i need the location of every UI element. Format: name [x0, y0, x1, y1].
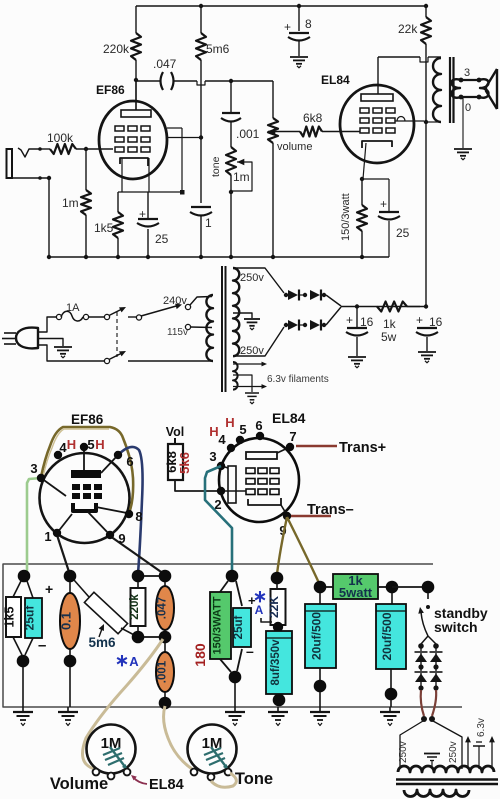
resistor 22k [425, 6, 427, 17]
ground 20uf2 [389, 707, 391, 712]
ground 0.1 [67, 707, 69, 712]
switch mains lower [104, 358, 109, 363]
transformer mains layout leads [400, 721, 423, 769]
board outline [3, 564, 462, 707]
switch selector [136, 315, 141, 320]
resistor 1k 5watt layout [333, 574, 378, 599]
svg-text:+: + [380, 197, 387, 211]
svg-text:250v: 250v [398, 741, 409, 763]
transformer PT core [221, 266, 223, 392]
svg-text:7: 7 [289, 429, 296, 444]
EF86 g2 g3 leads [167, 127, 182, 129]
transformer PT primary [206, 295, 213, 361]
wire plug earth [38, 339, 63, 347]
capacitor 8uf/350v layout [266, 631, 292, 694]
node 20uf1 bottom [314, 680, 327, 693]
svg-text:5m6: 5m6 [88, 635, 116, 650]
capacitor 25uf layout [25, 598, 42, 638]
node cathode gnd [360, 255, 364, 259]
wire HT top tap [233, 268, 284, 293]
svg-text:1: 1 [205, 216, 212, 230]
wire EF86 pin1 black [57, 535, 70, 575]
node rail-cap8 [297, 4, 301, 8]
diode DB2 [430, 671, 443, 673]
svg-text:∗: ∗ [115, 651, 129, 670]
wire top link [144, 575, 159, 577]
EL84 pin 3 [217, 462, 225, 470]
svg-text:EF86: EF86 [71, 412, 104, 427]
potentiometer volume [272, 81, 274, 118]
svg-text:EF86: EF86 [96, 83, 125, 97]
transformer OT primary [433, 58, 441, 122]
wire tan tone wiper loop [211, 773, 236, 787]
EL84 socket internals [246, 452, 277, 459]
EL84 cathode [362, 141, 392, 148]
svg-text:.001: .001 [236, 127, 260, 141]
svg-text:220k: 220k [103, 42, 130, 56]
resistor 220k [135, 6, 137, 33]
resistor 100k [50, 144, 76, 154]
speaker [486, 69, 497, 109]
wire B+ line [341, 306, 426, 308]
capacitor .047 coupling [161, 72, 164, 90]
svg-text:+: + [284, 20, 291, 34]
transformer PT HT secondary [233, 268, 239, 356]
EL84 pin 2 [217, 487, 225, 495]
Volume lugs [93, 769, 100, 776]
svg-text:A: A [129, 654, 139, 669]
diode D1 [288, 290, 298, 300]
tap 115v [185, 324, 190, 329]
svg-text:25: 25 [396, 226, 410, 240]
wire HT centre tap [233, 313, 252, 318]
svg-text:115v: 115v [167, 327, 188, 338]
arrow EL84 to volume [133, 777, 147, 784]
svg-text:+: + [45, 581, 53, 597]
svg-text:volume: volume [277, 141, 312, 153]
ground filament [245, 392, 259, 394]
wire EF86 heater loop olive [41, 427, 133, 513]
diode DA2 [415, 671, 428, 673]
svg-text:25uf: 25uf [23, 605, 37, 631]
ground 8uf [277, 707, 279, 712]
node 8uf bottom [273, 694, 286, 707]
diode DB1 [430, 651, 443, 653]
wire HT top rail [136, 5, 426, 7]
resistor 1k5 layout [18, 570, 31, 583]
resistor 220k layout [132, 570, 145, 583]
ground HT centre [244, 318, 260, 320]
svg-text:tone: tone [210, 156, 222, 177]
EF86 pin 4 [54, 451, 62, 459]
capacitor 25uf EL84 layout [233, 608, 251, 647]
wire EL84 pin9 olive b [287, 517, 319, 583]
node g2-junction [199, 135, 203, 139]
wire tan 001 to tone [164, 706, 192, 769]
svg-text:8: 8 [305, 17, 312, 31]
diode D2 [310, 290, 320, 300]
EF86 pin 8 [125, 510, 133, 518]
resistor 1m grid leak [85, 149, 87, 190]
tube EL84 envelope [340, 85, 414, 163]
svg-text:5k6: 5k6 [177, 452, 192, 474]
node 1k5 bottom [17, 655, 30, 668]
wire to standby [392, 586, 428, 588]
svg-text:180: 180 [192, 643, 208, 667]
EL84 pin 7 [286, 443, 294, 451]
node .001 bottom [159, 697, 172, 710]
tube socket EL84 layout [219, 438, 299, 522]
wire coupling line [135, 80, 137, 110]
EL84 pin 4 [227, 444, 235, 452]
svg-text:.047: .047 [153, 57, 177, 71]
svg-text:240v: 240v [163, 295, 187, 307]
wire filament bottom [233, 386, 262, 388]
node 20uf2 bottom [385, 688, 398, 701]
wire EF86 pin9 black [110, 536, 164, 574]
svg-text:20uf/500: 20uf/500 [310, 612, 324, 660]
svg-text:9: 9 [118, 531, 125, 546]
ground OT secondary [454, 148, 472, 150]
resistor 1k 5w [377, 302, 407, 312]
svg-text:3: 3 [464, 67, 470, 79]
node tone bottom [229, 190, 233, 194]
svg-text:Trans+: Trans+ [339, 440, 386, 456]
svg-text:5watt: 5watt [339, 585, 373, 600]
wire Trans- line [291, 515, 331, 517]
EF86 socket internals [83, 449, 85, 470]
transformer mains layout winding [398, 766, 494, 772]
ground mains earth [54, 346, 72, 348]
potentiometer Tone 1M [188, 725, 237, 774]
node rail-22k [424, 4, 428, 8]
svg-text:250v: 250v [240, 272, 264, 284]
EF86 grids [115, 126, 124, 131]
capacitor 25uF EL84 bypass [362, 178, 389, 180]
node 22K bottom [273, 622, 283, 632]
svg-text:250v: 250v [240, 345, 264, 357]
EF86 plate [121, 110, 151, 117]
node 0.1 bottom [64, 655, 77, 668]
wire EL84 plate to OT [378, 56, 420, 58]
svg-text:1k5: 1k5 [3, 607, 17, 628]
svg-text:6: 6 [255, 418, 262, 433]
node .047 bottom [159, 631, 172, 644]
resistor 150/3watt [361, 179, 363, 205]
resistor 1k5 cathode [113, 212, 123, 238]
wire EF86 cathode rail [118, 191, 182, 193]
wire diode join lower [326, 307, 341, 325]
svg-text:3: 3 [209, 449, 216, 464]
svg-text:22k: 22k [398, 22, 418, 36]
resistor 5m6 layout [74, 580, 89, 597]
svg-text:+: + [416, 313, 423, 327]
capacitor 16uF first [356, 306, 358, 327]
potentiometer tone 1m [226, 147, 236, 175]
ground 16uF first [348, 356, 366, 358]
transformer PT filament winding [233, 362, 238, 390]
EL84 pin 9 [283, 512, 291, 520]
capacitor 20uf/500 first [314, 581, 327, 594]
svg-text:H: H [225, 415, 234, 430]
node rail-5m6 [199, 4, 203, 8]
svg-text:1k: 1k [383, 317, 397, 331]
svg-text:H: H [95, 437, 104, 452]
svg-text:1A: 1A [66, 302, 80, 314]
diode DA1 [415, 651, 428, 653]
svg-text:5: 5 [87, 437, 94, 452]
wire 6k8 to pin2 [175, 480, 218, 491]
node tone tap [229, 79, 233, 83]
Tone wiper [204, 748, 221, 755]
wire EL84 pin3 teal [205, 466, 232, 572]
svg-text:Volume: Volume [50, 775, 108, 793]
node grid EF86 [84, 147, 88, 151]
resistor 5m6 [200, 6, 202, 33]
wire EF86 pin6 navy [118, 447, 143, 574]
resistor 6k8 grid stopper [300, 127, 322, 137]
ground 20uf1 [319, 707, 321, 712]
wire diode tails red [421, 690, 424, 716]
svg-text:3: 3 [30, 461, 37, 476]
EF86 cathode [120, 158, 148, 166]
node 1k5watt right [386, 581, 399, 594]
capacitor 1 screen [191, 206, 211, 208]
svg-text:switch: switch [434, 619, 478, 635]
wire EL84 pin9 olive a [277, 517, 287, 574]
fuse 1A [56, 314, 61, 319]
EL84 plate [361, 94, 393, 101]
capacitor .001 tone [230, 81, 232, 113]
wire screen feed vertical [425, 44, 427, 306]
svg-text:150/3WATT: 150/3WATT [212, 596, 224, 654]
svg-text:220k: 220k [129, 594, 141, 620]
svg-text:A: A [255, 603, 264, 617]
svg-text:1m: 1m [233, 170, 250, 184]
ground 16uF second [418, 351, 436, 353]
svg-text:1: 1 [44, 529, 51, 544]
EL84 pin 6 [256, 432, 264, 440]
EF86 pin 5 [80, 443, 88, 451]
svg-text:.047: .047 [157, 597, 169, 619]
diode D3 [288, 320, 298, 330]
svg-text:6: 6 [126, 454, 133, 469]
resistor 150/3WATT layout [226, 570, 239, 583]
tube socket EF86 layout [40, 453, 130, 543]
ground cathode [234, 707, 236, 712]
switch mains upper [104, 314, 109, 319]
wire filament mid [233, 375, 252, 387]
diode D4 [310, 320, 320, 330]
svg-text:+: + [346, 313, 353, 327]
EL84 grids [360, 108, 369, 113]
tube EF86 envelope [99, 101, 167, 179]
svg-text:5w: 5w [381, 330, 397, 344]
svg-text:.001: .001 [157, 660, 169, 683]
capacitor 0.1 layout [64, 570, 77, 583]
wire plug neutral [38, 345, 105, 361]
svg-text:1m: 1m [62, 196, 79, 210]
wire filament top [233, 363, 262, 365]
svg-text:0.1: 0.1 [59, 612, 74, 630]
svg-text:25uf: 25uf [233, 616, 245, 640]
Tone lugs [191, 769, 198, 776]
svg-text:8: 8 [135, 509, 142, 524]
EF86 pin 1 [53, 529, 61, 537]
wire preamp ground rail [49, 256, 389, 258]
capacitor 25uF cathode bypass [147, 192, 149, 218]
transformer OT secondary [461, 79, 479, 81]
wire bottom link [144, 636, 159, 638]
EF86 pin 6 [114, 451, 122, 459]
svg-text:0: 0 [465, 102, 471, 114]
switch gang link [116, 312, 118, 357]
ground 1k5 [22, 707, 24, 712]
capacitor .001 layout [164, 643, 166, 653]
svg-text:5m6: 5m6 [206, 42, 230, 56]
wire diode fork [421, 636, 428, 644]
resistor 22K layout [271, 572, 284, 585]
svg-text:Tone: Tone [235, 770, 273, 788]
node cathode bottom [229, 671, 242, 684]
wire plug live [38, 317, 56, 332]
svg-text:5: 5 [239, 422, 246, 437]
EL84 pin 5 [236, 436, 244, 444]
svg-text:–: – [246, 643, 254, 659]
capacitor 8uF smoothing [298, 6, 300, 31]
svg-text:4: 4 [218, 432, 226, 447]
svg-text:22K: 22K [267, 596, 281, 618]
wire tan 047 to volume [83, 639, 164, 768]
wire OT secondary 0 to ground [462, 98, 464, 148]
wire 6.3v arrows [467, 741, 469, 769]
node EL84 cathode [360, 177, 364, 181]
node 220k bottom [132, 631, 145, 644]
svg-text:EL84: EL84 [272, 410, 306, 426]
svg-text:6k8: 6k8 [303, 111, 323, 125]
svg-text:EL84: EL84 [321, 73, 350, 87]
svg-text:25: 25 [155, 232, 169, 246]
mains plug [16, 328, 38, 349]
svg-text:Vol: Vol [166, 425, 185, 439]
wire 5m6 to g2 node [200, 60, 202, 203]
input jack [7, 149, 13, 178]
transformer OT core [449, 57, 451, 123]
wire HT bottom tap [233, 327, 284, 356]
Volume wiper [103, 748, 120, 755]
svg-text:EL84: EL84 [149, 777, 184, 793]
capacitor 20uf/500 second [391, 593, 393, 604]
wire Trans+ line [296, 445, 337, 447]
EL84 screen lead [395, 120, 424, 122]
svg-text:8uf/350v: 8uf/350v [270, 639, 282, 686]
wire EF86 pin3 green [24, 478, 41, 575]
svg-text:20uf/500: 20uf/500 [380, 612, 394, 660]
EF86 pin 3 [37, 474, 45, 482]
svg-text:H: H [209, 424, 218, 439]
svg-text:150/3watt: 150/3watt [340, 193, 352, 241]
potentiometer Volume 1M [87, 725, 136, 774]
svg-text:100k: 100k [47, 131, 74, 145]
node screen [424, 120, 428, 124]
wire diode join upper [326, 295, 341, 306]
svg-text:–: – [38, 637, 46, 654]
tap 240v [185, 304, 190, 309]
EF86 pin 9 [106, 531, 114, 539]
svg-text:1k5: 1k5 [94, 221, 114, 235]
node EF86 plate [134, 78, 138, 82]
svg-text:6.3v: 6.3v [476, 718, 487, 737]
switch standby [422, 581, 435, 594]
svg-text:250v: 250v [448, 741, 459, 763]
svg-text:6.3v filaments: 6.3v filaments [267, 374, 329, 385]
svg-text:H: H [67, 437, 76, 452]
wire jack sleeve [12, 177, 49, 179]
ground cap8 [290, 56, 308, 58]
capacitor .047 layout [159, 570, 172, 583]
svg-text:Trans–: Trans– [307, 502, 354, 518]
ground HT centre layout [424, 753, 440, 755]
